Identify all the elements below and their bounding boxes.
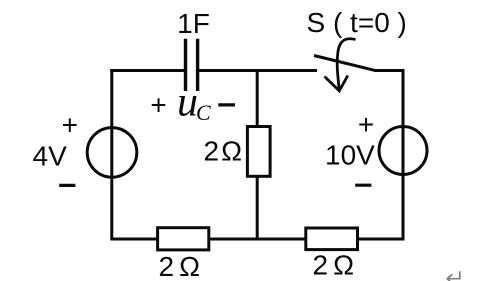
switch S blade — [314, 56, 375, 71]
wire bottom rail — [110, 238, 404, 241]
wire switch to right corner — [374, 69, 405, 72]
source V1 polarity minus — [59, 184, 75, 187]
resistor R3 bottom-right 2ohm body — [306, 228, 358, 250]
capacitor C1 left plate — [184, 39, 187, 91]
wire left branch vertical — [110, 69, 113, 239]
svg-text:10V: 10V — [325, 140, 375, 171]
wire top rail right of capacitor (capacitor to switch) — [199, 69, 317, 72]
svg-text:+: + — [62, 110, 78, 141]
return mark (gray paragraph glyph) — [447, 271, 460, 281]
capacitor polarity minus — [218, 103, 235, 106]
voltage source V2 (10V) circle — [379, 127, 427, 175]
switch closing arrow arc — [337, 39, 355, 91]
svg-text:u: u — [177, 80, 198, 126]
wire top rail left (node A to capacitor) — [110, 69, 184, 72]
svg-text:S ( t=0 ): S ( t=0 ) — [307, 7, 407, 38]
svg-text:2Ω: 2Ω — [159, 251, 206, 281]
svg-text:4V: 4V — [33, 141, 68, 172]
switch closing arrowhead — [325, 76, 348, 91]
capacitor C1 right plate — [196, 39, 199, 91]
svg-text:1F: 1F — [177, 8, 210, 39]
svg-text:+: + — [150, 89, 166, 120]
wire right branch vertical — [402, 69, 405, 239]
wire middle branch vertical — [256, 69, 259, 239]
resistor R1 middle 2ohm body — [247, 127, 270, 177]
voltage source V1 (4V) circle — [87, 128, 137, 178]
resistor R2 bottom-left 2ohm body — [158, 228, 209, 250]
svg-text:2Ω: 2Ω — [313, 250, 360, 281]
svg-text:+: + — [358, 109, 374, 140]
svg-text:2Ω: 2Ω — [204, 136, 245, 167]
svg-text:C: C — [196, 100, 211, 125]
source V2 polarity minus — [355, 184, 371, 187]
